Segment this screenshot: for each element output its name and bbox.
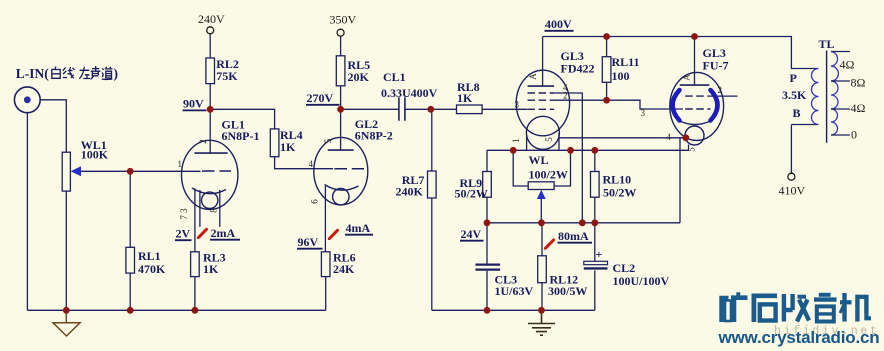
watermark hanzi yin (sound) — [814, 295, 837, 322]
node RL11 bottom — [603, 97, 610, 104]
svg-text:100U/100V: 100U/100V — [613, 274, 670, 288]
watermark hanzi kuang (ore) — [722, 292, 748, 322]
wire GL1 heater stubs — [200, 190, 220, 227]
resistor RL10 — [591, 172, 600, 198]
ground triangle symbol — [53, 310, 80, 336]
FU-7 beam plates — [673, 90, 718, 121]
wire GL1 cathode to RL3 — [194, 189, 196, 252]
wire 24V node rail — [487, 222, 680, 224]
node RL1 bottom — [127, 307, 134, 314]
svg-text:RL10: RL10 — [603, 173, 632, 187]
node 270V — [337, 106, 344, 113]
wire RL4 bottom to GL2 grid — [275, 157, 333, 169]
wire FU-7 pin2 stub — [710, 95, 737, 97]
resistor RL5 — [336, 56, 345, 86]
wire CL1 to RL8 — [405, 108, 457, 110]
svg-text:100/2W: 100/2W — [529, 168, 568, 182]
svg-text:2V: 2V — [176, 227, 191, 241]
pentode U3 GL3 FD422 — [516, 70, 569, 149]
wire RL3 bottom — [194, 277, 196, 311]
wire RL1 bottom — [129, 273, 131, 310]
wire 270V node to CL1 — [341, 108, 399, 110]
svg-text:4Ω: 4Ω — [840, 58, 855, 72]
triode GL2 — [314, 137, 368, 204]
resistor RL1 — [126, 247, 135, 273]
transformer TL primary winding — [812, 69, 819, 125]
svg-text:50/2W: 50/2W — [455, 187, 488, 201]
wire 240V terminal to RL2 — [209, 34, 211, 58]
resistor RL8 — [457, 105, 483, 114]
svg-text:4: 4 — [309, 159, 314, 169]
triode GL1 — [182, 140, 238, 209]
svg-text:6N8P-1: 6N8P-1 — [222, 129, 260, 143]
wire RL12 bottom — [541, 283, 543, 311]
svg-text:WL: WL — [529, 153, 549, 167]
node WL1 wiper / GL1 grid — [127, 168, 134, 175]
node WL right end — [567, 147, 574, 154]
wire RL9 bottom — [486, 197, 488, 223]
wire 400V rail — [543, 37, 819, 69]
svg-text:24V: 24V — [461, 227, 482, 241]
svg-text:90V: 90V — [183, 97, 204, 111]
svg-text:1: 1 — [511, 138, 521, 143]
capacitor CL3 — [475, 265, 500, 270]
svg-text:240K: 240K — [396, 185, 424, 199]
svg-text:5: 5 — [323, 138, 333, 143]
svg-text:350V: 350V — [330, 13, 357, 27]
resistor RL12 — [538, 256, 547, 283]
svg-text:2: 2 — [718, 85, 723, 95]
svg-text:270V: 270V — [307, 91, 334, 105]
svg-text:3: 3 — [515, 100, 520, 110]
wire WL1 bottom to bus — [65, 191, 67, 310]
svg-text:6N8P-2: 6N8P-2 — [355, 129, 393, 143]
wire RL1 top — [129, 171, 131, 247]
wire GL1 plate lead — [209, 109, 211, 153]
watermark hanzi shi (stone) — [752, 296, 778, 322]
svg-text:0.33U400V: 0.33U400V — [381, 86, 438, 100]
wire FD422 pin2 to RL11 bottom to FU-7 grid — [554, 100, 683, 109]
svg-text:410V: 410V — [779, 184, 806, 198]
node 90V — [207, 106, 214, 113]
watermark hanzi shou (receive) — [784, 294, 809, 322]
wire RL9 top — [486, 150, 488, 171]
wire 90V node to RL4 top — [210, 109, 274, 129]
svg-text:+: + — [596, 247, 603, 261]
hanzi sheng (sound) — [91, 66, 101, 79]
wire RL5 bottom to 270V node — [340, 86, 342, 110]
wire FD422 pin4 to 24V node — [554, 93, 582, 223]
svg-text:1K: 1K — [457, 91, 473, 105]
svg-text:4Ω: 4Ω — [851, 101, 866, 115]
svg-text:B: B — [793, 106, 801, 120]
svg-text:100K: 100K — [81, 148, 109, 162]
svg-text:www.crystalradio.cn: www.crystalradio.cn — [718, 328, 880, 347]
terminal 240V — [207, 27, 214, 34]
beam tetrode U4 GL3 FU-7 — [670, 72, 724, 145]
svg-text:24K: 24K — [333, 262, 355, 276]
svg-text:5: 5 — [687, 147, 697, 152]
svg-text:2mA: 2mA — [211, 226, 236, 240]
resistor RL6 — [321, 252, 330, 277]
wire FU-7 pin5 hook — [688, 145, 690, 151]
wire FD422 plate lead — [542, 37, 544, 87]
transformer TL secondary winding — [831, 52, 838, 136]
wire FU-7 plate lead — [694, 37, 696, 86]
wire WL pot end leads — [513, 150, 570, 186]
hanzi bai (white) — [52, 67, 60, 79]
transformer TL core — [826, 51, 828, 143]
svg-text:300/5W: 300/5W — [548, 284, 587, 298]
svg-text:7 3: 7 3 — [179, 208, 189, 220]
potentiometer WL body — [528, 182, 554, 190]
wire RL10 top — [594, 150, 596, 171]
svg-text:240V: 240V — [198, 12, 225, 26]
svg-text:4: 4 — [667, 132, 672, 142]
wire RL7 bottom — [431, 198, 433, 310]
wire FD422 pin5 jog — [558, 133, 560, 150]
potentiometer WL1 body — [62, 152, 70, 191]
capacitor CL2 — [584, 261, 608, 268]
wire ground bus left — [27, 309, 325, 311]
svg-text:3.5K: 3.5K — [782, 88, 807, 102]
svg-text:0: 0 — [851, 128, 857, 142]
wire cathode rail — [487, 149, 689, 151]
wire RL11 top — [606, 37, 608, 57]
measure slash at 2V/2mA — [198, 229, 207, 238]
terminal 410V — [788, 173, 795, 180]
svg-text:1U/63V: 1U/63V — [495, 284, 534, 298]
node CL1/RL8/RL7 — [427, 106, 434, 113]
svg-text:80mA: 80mA — [558, 229, 589, 243]
svg-text:RL11: RL11 — [612, 55, 640, 69]
svg-text:A: A — [682, 74, 692, 81]
svg-text:8: 8 — [209, 208, 219, 213]
svg-text:75K: 75K — [216, 69, 238, 83]
wire RL6 bottom — [325, 277, 327, 311]
wire GL2 plate lead — [340, 109, 342, 150]
svg-text:3: 3 — [641, 108, 646, 118]
svg-text:1K: 1K — [280, 140, 296, 154]
wire WL wiper stem — [540, 199, 542, 223]
svg-text:): ) — [114, 66, 119, 81]
wire CL3 bottom — [486, 271, 488, 310]
hanzi xian (wire) — [63, 67, 75, 78]
node RL3 bottom — [192, 307, 199, 314]
node WL left end — [510, 147, 517, 154]
measure slash at 96V/4mA — [329, 230, 338, 239]
svg-text:CL1: CL1 — [383, 70, 406, 84]
wire FD422 pin1 lead — [526, 136, 528, 151]
wire RL2 bottom to 90V node — [209, 84, 211, 110]
resistor RL11 — [602, 57, 611, 83]
svg-text:FD422: FD422 — [561, 62, 595, 76]
svg-text:96V: 96V — [298, 235, 319, 249]
WATERMARK — [722, 292, 871, 322]
svg-text:1K: 1K — [203, 262, 219, 276]
svg-text:2: 2 — [198, 139, 208, 144]
wire CL2 top — [594, 223, 596, 261]
resistor RL2 — [206, 58, 215, 84]
node ground bus at triangle — [63, 307, 70, 314]
svg-text:4mA: 4mA — [346, 221, 371, 235]
svg-text:CL2: CL2 — [613, 261, 636, 275]
terminal 350V — [337, 29, 344, 36]
earth ground symbol — [528, 310, 555, 335]
svg-text:50/2W: 50/2W — [603, 186, 636, 200]
wire GL2 cathode to RL6 — [324, 186, 326, 252]
svg-text:FU-7: FU-7 — [703, 59, 729, 73]
svg-text:20K: 20K — [348, 70, 370, 84]
wire RL11 bottom — [606, 82, 608, 100]
resistor RL4 — [270, 129, 279, 157]
input jack L-IN — [14, 87, 40, 113]
wire CL3 top — [486, 223, 488, 264]
wire RL12 top — [541, 223, 543, 256]
PARTS — [62, 56, 611, 283]
node g3 tie — [579, 219, 586, 226]
node RL10 bottom / CL2 — [591, 219, 598, 226]
svg-text:2: 2 — [563, 91, 568, 101]
node FU-7 cathode — [682, 134, 689, 141]
measure slash at 80mA — [545, 240, 554, 249]
wire input jack to WL1 top — [40, 100, 66, 152]
wire WL1 wiper to GL1 grid — [79, 170, 201, 172]
svg-text:470K: 470K — [138, 262, 166, 276]
wire input jack down to ground bus — [26, 113, 28, 310]
wire RL7 top — [431, 109, 433, 171]
label L-IN input — [16, 66, 118, 81]
wire primary B lead to 410V — [791, 125, 818, 174]
wire RL8 to FD422 grid — [482, 108, 527, 110]
svg-text:RL1: RL1 — [138, 249, 161, 263]
potentiometer WL1 wiper arrow — [71, 166, 81, 176]
wire RL10 bottom — [594, 197, 596, 223]
capacitor CL1 — [399, 97, 405, 120]
svg-text:1: 1 — [178, 159, 183, 169]
node RL12 top — [538, 219, 545, 226]
watermark hanzi ji (machine) — [840, 293, 871, 322]
node 24V RL9 bottom — [484, 219, 491, 226]
potentiometer WL wiper arrow — [537, 190, 546, 199]
wire ground bus middle — [432, 309, 595, 311]
hanzi zuo (left) — [79, 67, 90, 79]
node FU-7 plate — [691, 33, 698, 40]
node RL10 top — [591, 147, 598, 154]
transformer secondary taps — [831, 52, 850, 136]
svg-text:A: A — [528, 73, 538, 80]
node CL3 bottom — [484, 307, 491, 314]
resistor RL7 — [428, 171, 437, 198]
node RL12 bottom / earth — [538, 307, 545, 314]
svg-text:400V: 400V — [545, 17, 572, 31]
underlines for measurements — [175, 31, 592, 249]
wire 350V terminal to RL5 — [340, 36, 342, 56]
hanzi dao (channel) — [102, 67, 113, 80]
svg-text:100: 100 — [612, 69, 630, 83]
svg-text:6: 6 — [310, 199, 320, 204]
svg-text:P: P — [790, 71, 797, 85]
resistor RL3 — [191, 252, 200, 277]
wire FU-7 cathode to FD422 pin5 — [559, 137, 686, 139]
svg-text:L-IN(: L-IN( — [16, 66, 50, 81]
svg-text:TL: TL — [819, 37, 835, 51]
svg-text:5: 5 — [544, 137, 554, 142]
wire FU-7 cathode down to 24V node — [680, 138, 686, 223]
wire CL2 bottom — [594, 271, 596, 311]
resistor RL9 — [483, 172, 492, 198]
svg-text:8Ω: 8Ω — [851, 76, 866, 90]
node RL11 top — [603, 33, 610, 40]
